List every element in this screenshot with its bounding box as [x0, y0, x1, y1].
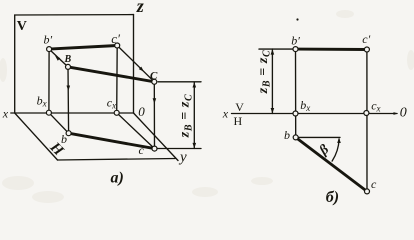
svg-text:0: 0 [400, 106, 407, 121]
axis y [134, 113, 179, 161]
horizontal leg at b fig b [296, 136, 340, 138]
scan speck [296, 18, 298, 20]
segment bc fig b (thick) [296, 137, 367, 191]
angle arc beta [332, 139, 339, 161]
plane H bottom edge [58, 159, 176, 161]
projection ray B-b' [49, 49, 68, 67]
dimension line zB=zC fig b [271, 49, 273, 113]
segment BC (thick) [68, 67, 154, 82]
svg-text:c′: c′ [111, 31, 120, 46]
projection ray C-c [153, 82, 155, 149]
projection line bx-b [49, 113, 69, 134]
svg-text:zB = zC: zB = zC [178, 94, 195, 138]
plane H left edge [15, 113, 58, 160]
connection line c'-cx-c fig b [366, 50, 368, 192]
svg-text:0: 0 [138, 104, 145, 119]
svg-text:cx: cx [371, 98, 380, 113]
svg-text:y: y [178, 150, 187, 166]
projection ray c'-C [117, 46, 154, 82]
segment b'c' (frontal projection, thick) [49, 46, 117, 50]
svg-text:b′: b′ [44, 33, 53, 47]
svg-text:c: c [139, 143, 145, 157]
svg-text:V: V [17, 19, 27, 34]
svg-text:H: H [234, 114, 243, 128]
svg-text:b′: b′ [291, 34, 300, 48]
svg-text:V: V [235, 100, 244, 114]
svg-text:c′: c′ [362, 32, 370, 46]
dimension arrow down fig b [271, 108, 275, 114]
node c fig b [365, 189, 370, 194]
node b [66, 131, 71, 136]
svg-text:b: b [61, 132, 67, 146]
svg-text:bx: bx [300, 98, 310, 113]
arrowhead down on B-b [67, 86, 71, 92]
svg-text:b: b [284, 128, 290, 142]
svg-text:z: z [136, 0, 144, 16]
arrowhead toward C [139, 67, 144, 72]
svg-text:x: x [222, 107, 229, 121]
svg-text:б): б) [326, 189, 339, 206]
dimension arrow up fig b [271, 49, 275, 55]
segment b'c' fig b (thick) [296, 48, 367, 51]
angle arc arrowhead [337, 138, 341, 143]
node B [66, 64, 71, 69]
node C [152, 79, 157, 84]
axis end arrow fig b [394, 112, 399, 115]
plane V frame (left and top edges) [15, 15, 134, 113]
extension line at b' level fig b [259, 48, 296, 50]
svg-text:bx: bx [37, 94, 47, 109]
node bx [46, 110, 51, 115]
projection line c'-cx [116, 46, 119, 113]
axis z [133, 15, 135, 113]
node c' fig b [364, 47, 369, 52]
projection line b'-bx [48, 49, 50, 113]
dimension arrow down fig a [193, 143, 197, 149]
extension line at C level [158, 81, 201, 83]
node b' [47, 47, 52, 52]
node c' [115, 43, 120, 48]
projection ray B-b [67, 67, 70, 133]
svg-text:B: B [64, 54, 72, 65]
extension line at c level [158, 148, 202, 150]
node bx fig b [293, 111, 298, 116]
svg-text:а): а) [111, 169, 124, 186]
arrowhead down on C-c [153, 98, 157, 104]
svg-text:cx: cx [107, 95, 116, 110]
projection line cx-c [117, 113, 155, 149]
node cx fig b [364, 111, 369, 116]
axis x [11, 112, 134, 114]
axis x fig b [232, 113, 398, 115]
dimension line zB=zC fig a [193, 82, 195, 148]
node b fig b [293, 135, 298, 140]
segment bc (horizontal projection, thick) [69, 133, 155, 148]
svg-text:x: x [2, 107, 9, 121]
dimension arrow up fig a [193, 82, 197, 88]
svg-text:zB = zC: zB = zC [256, 50, 273, 94]
arrowhead toward b' [55, 56, 60, 61]
svg-text:c: c [371, 177, 377, 191]
node c [152, 146, 157, 151]
svg-text:C: C [150, 70, 158, 82]
node b' fig b [293, 47, 298, 52]
connection line b'-bx-b fig b [295, 49, 297, 137]
node cx [114, 110, 119, 115]
